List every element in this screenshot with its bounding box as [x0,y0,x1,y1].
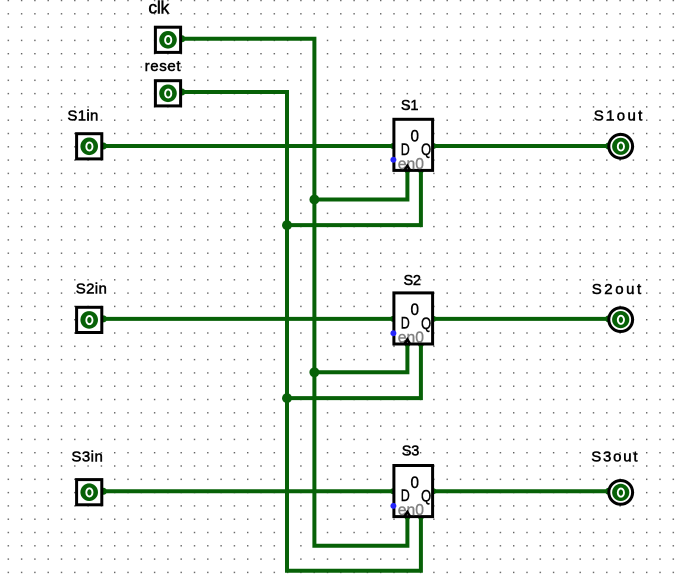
svg-text:S2in: S2in [76,281,107,298]
svg-text:reset: reset [145,58,182,75]
svg-text:S1out: S1out [594,108,643,125]
svg-text:0: 0 [411,301,420,319]
svg-text:S3: S3 [402,444,420,460]
svg-text:S1in: S1in [67,108,98,125]
svg-text:0: 0 [411,128,420,146]
svg-text:S3in: S3in [71,449,102,466]
svg-text:clk: clk [148,0,169,18]
svg-text:S3out: S3out [591,448,638,465]
svg-text:S1: S1 [401,98,419,114]
svg-text:0: 0 [411,474,420,492]
svg-text:S2: S2 [404,273,422,289]
